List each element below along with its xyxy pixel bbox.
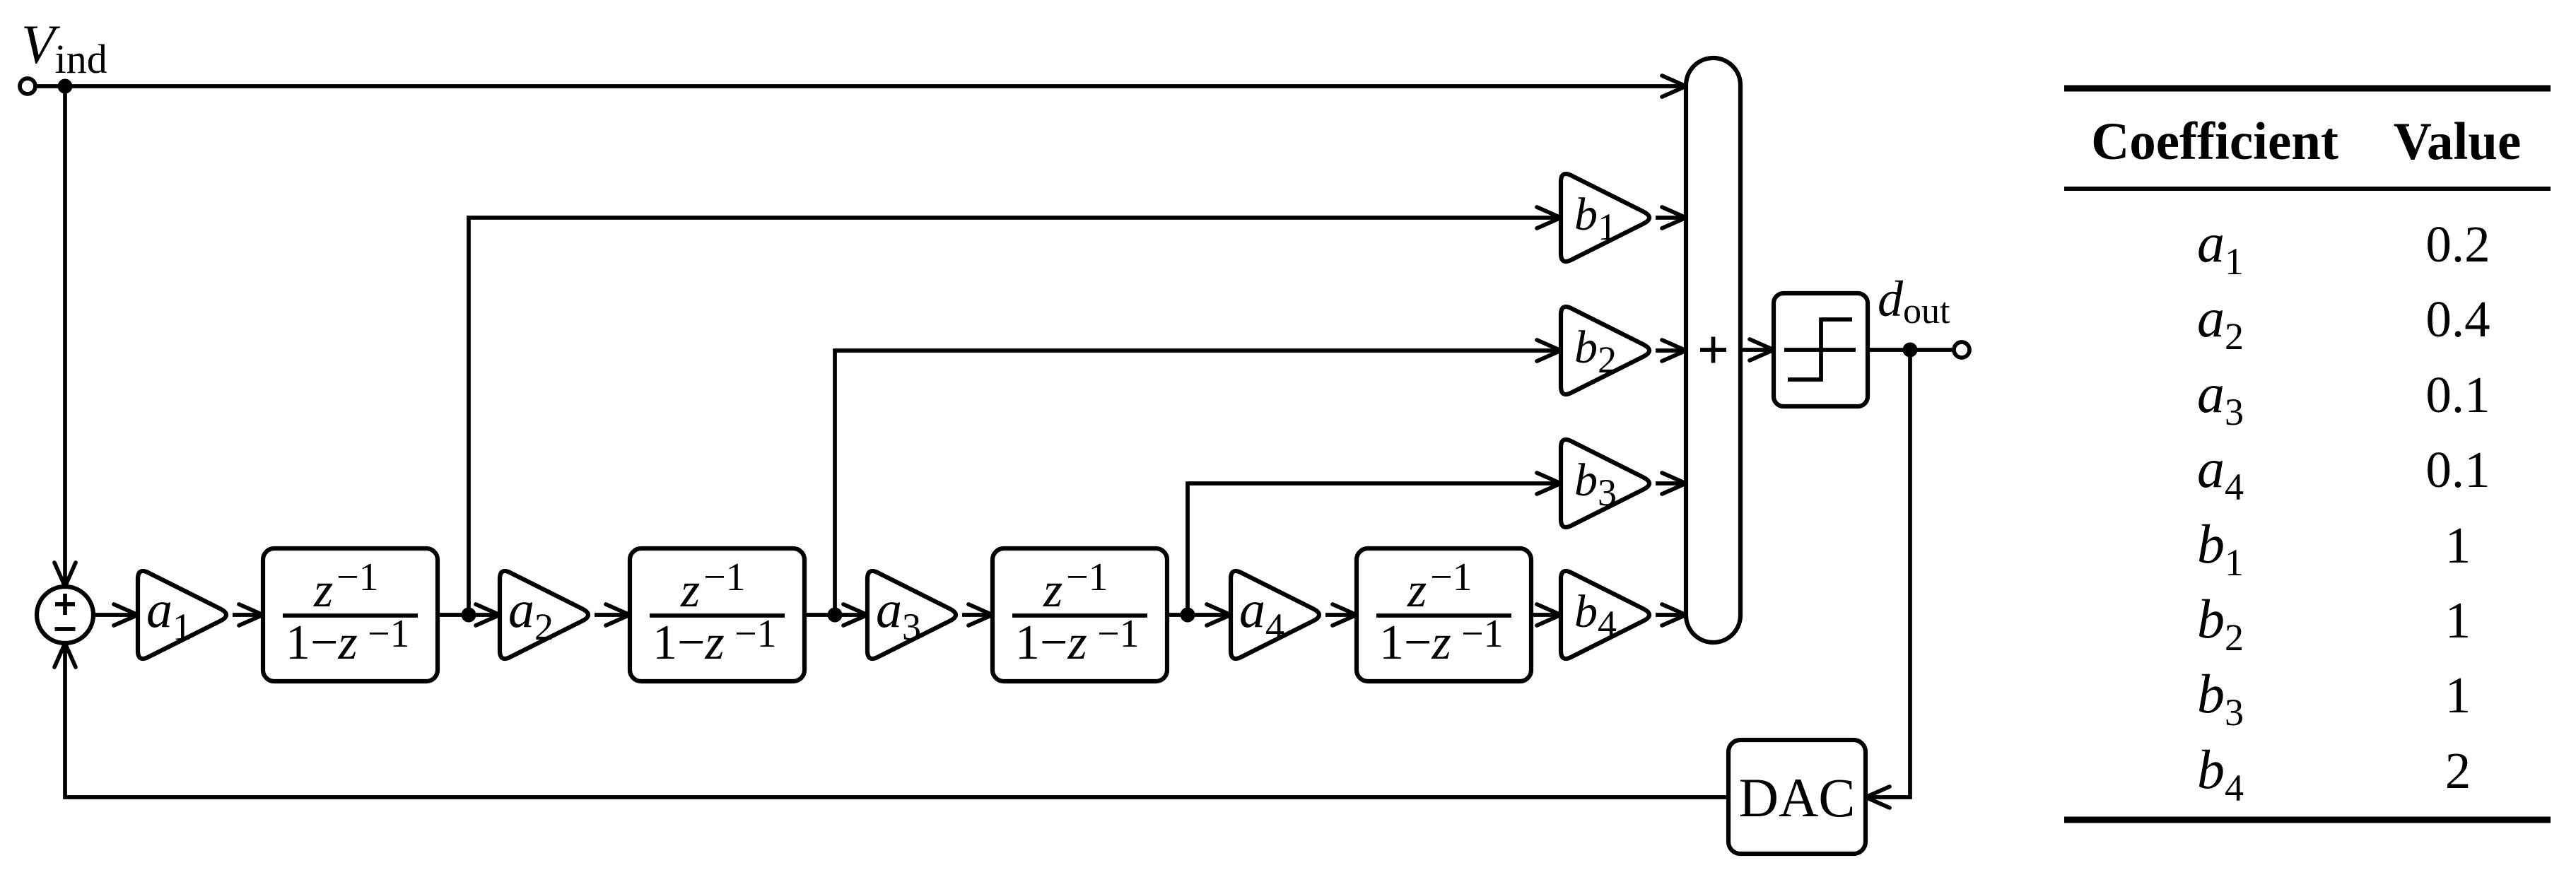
DAC U7 (1728, 740, 1866, 854)
gain a1 (138, 571, 226, 659)
wire: DAC to summing junction (minus input) (65, 643, 1728, 797)
wire: U3 to a4 (1167, 613, 1231, 617)
wire: node B tap to b1 (469, 218, 1561, 615)
svg-text:1−z: 1−z (286, 616, 358, 670)
svg-text:Coefficient: Coefficient (2091, 112, 2338, 171)
wire: node C tap to b2 (835, 351, 1561, 615)
svg-text:1−z: 1−z (652, 616, 725, 670)
wire: b1 to summer (1656, 216, 1686, 220)
wire: a1 to integrator U1 (233, 613, 263, 617)
wire: a3 to integrator U3 (962, 613, 993, 617)
node B (after U1) (462, 608, 476, 623)
wire: node E feedback down to DAC (1866, 350, 1910, 797)
node E (output branch) (1903, 343, 1918, 358)
wire: U2 to a3 (804, 613, 867, 617)
svg-text:DAC: DAC (1739, 767, 1856, 828)
svg-text:1−z: 1−z (1379, 616, 1451, 670)
svg-text:−1: −1 (1097, 612, 1140, 656)
integrator U2 (z^-1/(1-z^-1)) (630, 548, 804, 681)
wire: S1 to a1 (93, 613, 138, 617)
wire: a4 to integrator U4 (1325, 613, 1357, 617)
svg-text:z: z (313, 563, 333, 618)
wire: U4 to b4 (1531, 613, 1561, 617)
svg-text:1: 1 (2445, 517, 2471, 574)
wire: a2 to integrator U2 (595, 613, 630, 617)
gain a2 (500, 571, 588, 659)
table mid rule (2064, 187, 2551, 191)
quantizer U6 (1-bit) (1774, 293, 1868, 406)
node A (input branch) (58, 79, 73, 94)
wire: summer to quantizer (1740, 348, 1774, 352)
svg-text:z: z (1407, 563, 1427, 618)
integrator U4 (z^-1/(1-z^-1)) (1357, 548, 1531, 681)
gain b2 (1561, 307, 1649, 394)
output terminal dout (1954, 342, 1969, 358)
svg-text:−1: −1 (1066, 555, 1108, 599)
gain b4 (1561, 571, 1649, 659)
svg-text:2: 2 (2445, 742, 2471, 799)
svg-text:Value: Value (2394, 112, 2522, 171)
svg-text:z: z (1043, 563, 1062, 618)
gain b3 (1561, 440, 1649, 527)
wire: node A down to summing junction (63, 86, 67, 587)
wire: quantizer to output terminal (1868, 348, 1954, 352)
svg-text:0.4: 0.4 (2425, 290, 2490, 348)
svg-text:−1: −1 (1461, 612, 1504, 656)
node D (after U3) (1181, 608, 1195, 623)
wire: node D tap to b3 (1188, 483, 1561, 615)
svg-text:z: z (680, 563, 700, 618)
node C (after U2) (828, 608, 843, 623)
gain b1 (1561, 174, 1649, 261)
svg-text:−1: −1 (734, 612, 777, 656)
wire: b2 to summer (1656, 348, 1686, 353)
svg-text:−1: −1 (1430, 555, 1473, 599)
wire: b3 to summer (1656, 481, 1686, 486)
svg-text:−1: −1 (703, 555, 746, 599)
svg-text:−1: −1 (368, 612, 410, 656)
gain a4 (1231, 571, 1319, 659)
svg-text:1: 1 (2445, 592, 2471, 649)
table bottom rule (2064, 817, 2551, 823)
integrator U3 (z^-1/(1-z^-1)) (993, 548, 1167, 681)
summing junction S1 (37, 587, 93, 643)
wire: U1 to a2 (438, 613, 500, 617)
summer U5 (+) (1686, 58, 1740, 642)
svg-text:0.1: 0.1 (2425, 441, 2490, 498)
gain a3 (867, 571, 956, 659)
svg-text:0.1: 0.1 (2425, 366, 2490, 423)
svg-text:1−z: 1−z (1015, 616, 1087, 670)
wire: Vind to summer top input (35, 84, 1686, 88)
input terminal Vind (20, 78, 35, 94)
table top rule (2064, 86, 2551, 92)
integrator U1 (z^-1/(1-z^-1)) (263, 548, 438, 681)
svg-text:0.2: 0.2 (2425, 216, 2490, 273)
wire: b4 to summer (1656, 613, 1686, 617)
svg-text:−1: −1 (336, 555, 379, 599)
svg-text:1: 1 (2445, 666, 2471, 724)
